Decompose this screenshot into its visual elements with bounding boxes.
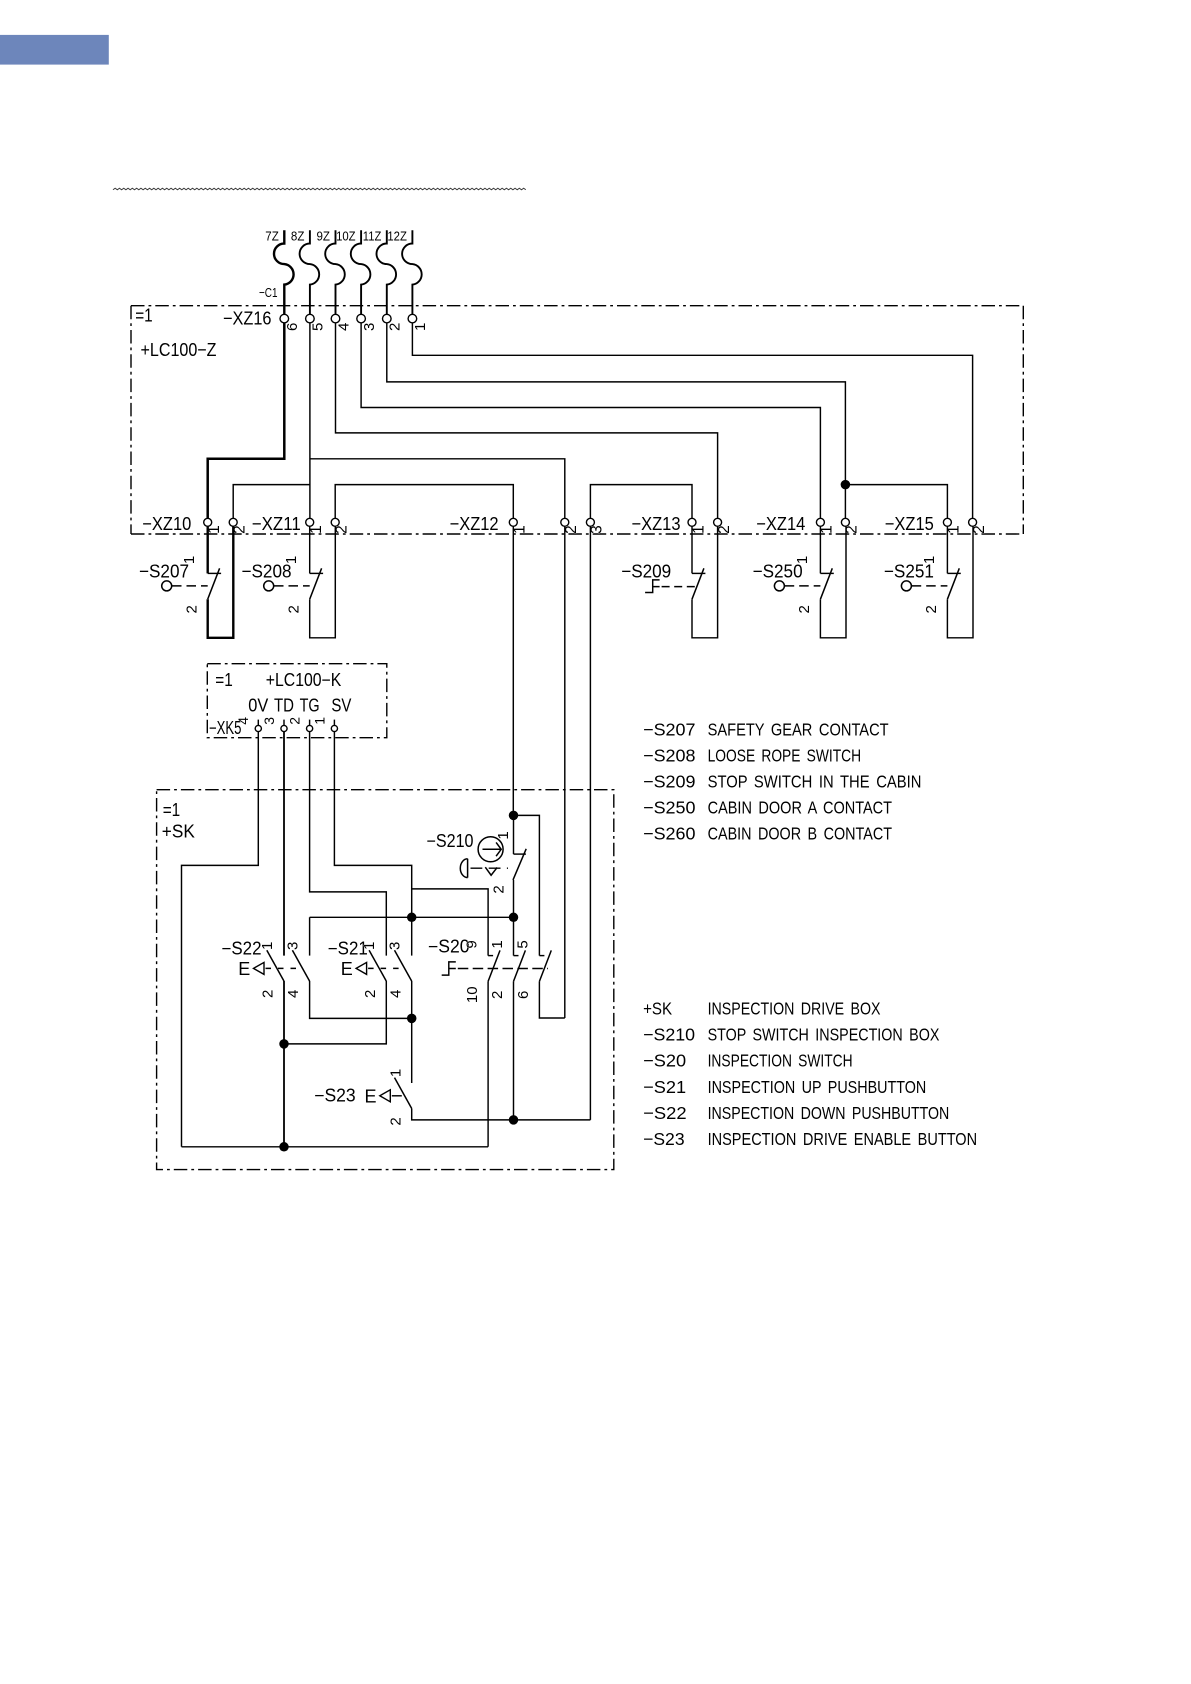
svg-text:+LC100−K: +LC100−K — [266, 670, 342, 690]
svg-text:E: E — [365, 1087, 377, 1107]
svg-text:1: 1 — [259, 942, 276, 950]
svg-text:1: 1 — [361, 942, 378, 950]
svg-text:INSPECTION DOWN PUSHBUTTON: INSPECTION DOWN PUSHBUTTON — [708, 1103, 950, 1123]
svg-text:−XZ10: −XZ10 — [142, 513, 191, 534]
svg-text:=1: =1 — [215, 670, 233, 690]
svg-text:INSPECTION DRIVE ENABLE BUTTON: INSPECTION DRIVE ENABLE BUTTON — [708, 1129, 978, 1149]
svg-text:+SK: +SK — [162, 822, 195, 842]
svg-text:−XZ16: −XZ16 — [223, 308, 272, 329]
svg-text:SAFETY GEAR CONTACT: SAFETY GEAR CONTACT — [708, 720, 889, 740]
svg-text:=1: =1 — [163, 800, 181, 820]
svg-text:7Z: 7Z — [265, 228, 279, 243]
svg-text:1: 1 — [308, 525, 325, 534]
svg-text:1: 1 — [690, 525, 707, 534]
svg-text:3: 3 — [361, 323, 378, 331]
svg-text:−S22: −S22 — [643, 1103, 687, 1123]
svg-text:1: 1 — [819, 525, 836, 534]
svg-text:INSPECTION UP PUSHBUTTON: INSPECTION UP PUSHBUTTON — [708, 1077, 927, 1097]
svg-text:6: 6 — [515, 991, 532, 999]
svg-text:2: 2 — [489, 991, 506, 999]
svg-text:−XZ15: −XZ15 — [885, 513, 934, 534]
svg-text:STOP SWITCH INSPECTION BOX: STOP SWITCH INSPECTION BOX — [708, 1025, 940, 1045]
svg-text:2: 2 — [362, 990, 379, 998]
svg-text:−S210: −S210 — [643, 1025, 695, 1045]
svg-text:1: 1 — [283, 556, 300, 564]
svg-text:LOOSE ROPE SWITCH: LOOSE ROPE SWITCH — [708, 746, 862, 766]
svg-text:−XZ14: −XZ14 — [756, 513, 805, 534]
svg-text:5: 5 — [515, 940, 532, 948]
svg-text:1: 1 — [946, 525, 963, 534]
svg-text:−XZ11: −XZ11 — [252, 513, 301, 534]
svg-text:−S20: −S20 — [643, 1051, 686, 1071]
svg-text:2: 2 — [285, 605, 302, 613]
svg-text:−S21: −S21 — [643, 1077, 686, 1097]
svg-text:=1: =1 — [135, 304, 153, 325]
svg-text:9: 9 — [463, 940, 480, 948]
svg-text:1: 1 — [489, 940, 506, 948]
svg-text:4: 4 — [387, 990, 404, 998]
svg-text:E: E — [238, 959, 250, 979]
svg-text:INSPECTION SWITCH: INSPECTION SWITCH — [708, 1051, 853, 1071]
svg-text:1: 1 — [387, 1069, 404, 1077]
svg-text:9Z: 9Z — [317, 228, 331, 243]
svg-text:2: 2 — [387, 1117, 404, 1125]
svg-text:10: 10 — [464, 986, 481, 1003]
svg-text:2: 2 — [563, 525, 580, 534]
svg-text:−S209: −S209 — [621, 561, 671, 582]
svg-text:−S208: −S208 — [643, 746, 696, 766]
svg-text:1: 1 — [495, 831, 512, 839]
svg-text:TG: TG — [300, 695, 320, 715]
svg-text:2: 2 — [260, 990, 277, 998]
svg-text:CABIN DOOR B CONTACT: CABIN DOOR B CONTACT — [708, 824, 893, 844]
svg-text:+LC100−Z: +LC100−Z — [141, 339, 217, 360]
svg-text:2: 2 — [491, 885, 508, 893]
svg-text:TD: TD — [274, 695, 294, 715]
svg-text:−S250: −S250 — [643, 798, 696, 818]
svg-text:2: 2 — [716, 525, 733, 534]
svg-text:CABIN DOOR A CONTACT: CABIN DOOR A CONTACT — [708, 798, 893, 818]
svg-text:1: 1 — [311, 717, 327, 725]
svg-text:−S23: −S23 — [643, 1129, 685, 1149]
svg-text:−S22: −S22 — [222, 938, 262, 958]
svg-text:6: 6 — [284, 323, 301, 331]
svg-text:10Z: 10Z — [336, 228, 356, 243]
svg-text:−S210: −S210 — [427, 831, 474, 851]
svg-text:E: E — [341, 959, 353, 979]
svg-text:−C1: −C1 — [259, 285, 278, 300]
svg-text:SV: SV — [331, 695, 351, 715]
svg-text:12Z: 12Z — [387, 228, 407, 243]
svg-text:2: 2 — [334, 525, 351, 534]
svg-text:INSPECTION DRIVE BOX: INSPECTION DRIVE BOX — [708, 999, 881, 1019]
svg-text:3: 3 — [261, 717, 277, 725]
svg-text:3: 3 — [387, 942, 404, 950]
svg-text:3: 3 — [589, 525, 606, 534]
svg-text:0V: 0V — [248, 695, 268, 715]
svg-text:4: 4 — [335, 323, 352, 331]
svg-text:5: 5 — [310, 323, 327, 331]
svg-text:−S207: −S207 — [643, 720, 695, 740]
svg-text:−S23: −S23 — [314, 1086, 356, 1106]
svg-text:2: 2 — [923, 605, 940, 613]
svg-text:2: 2 — [796, 605, 813, 613]
svg-text:1: 1 — [921, 556, 938, 564]
svg-text:+SK: +SK — [643, 999, 672, 1019]
svg-text:8Z: 8Z — [291, 228, 305, 243]
svg-text:STOP SWITCH IN THE CABIN: STOP SWITCH IN THE CABIN — [708, 772, 922, 792]
svg-text:−XZ13: −XZ13 — [632, 513, 681, 534]
svg-text:1: 1 — [412, 323, 429, 331]
svg-text:2: 2 — [387, 323, 404, 331]
svg-text:−S260: −S260 — [643, 824, 696, 844]
svg-text:11Z: 11Z — [363, 228, 382, 243]
svg-text:4: 4 — [235, 717, 251, 725]
svg-text:4: 4 — [285, 990, 302, 998]
svg-text:2: 2 — [287, 717, 303, 725]
svg-text:−S209: −S209 — [643, 772, 695, 792]
svg-text:1: 1 — [512, 525, 529, 534]
svg-text:3: 3 — [285, 942, 302, 950]
svg-text:2: 2 — [183, 605, 200, 613]
svg-text:−XZ12: −XZ12 — [450, 513, 499, 534]
svg-text:1: 1 — [794, 556, 811, 564]
svg-text:1: 1 — [181, 556, 198, 564]
